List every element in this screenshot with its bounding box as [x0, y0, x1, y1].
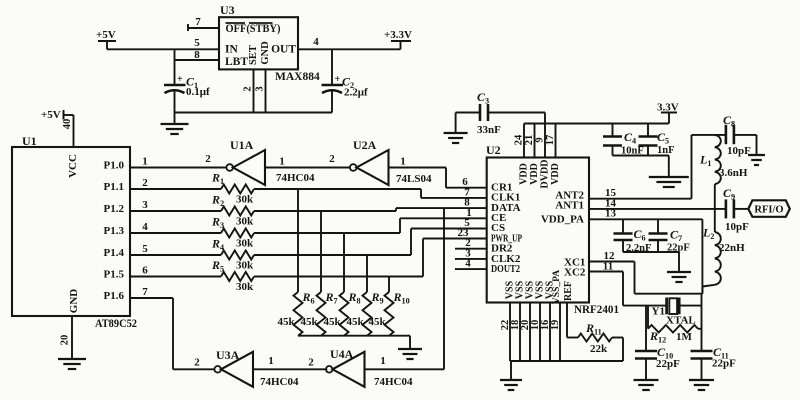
svg-text:19: 19 [550, 320, 561, 331]
svg-text:3.6nH: 3.6nH [719, 167, 748, 179]
svg-text:45k: 45k [369, 316, 387, 328]
svg-text:22pF: 22pF [656, 358, 680, 370]
svg-text:1: 1 [380, 355, 386, 367]
svg-text:+5V: +5V [41, 109, 61, 121]
svg-text:Y1: Y1 [652, 306, 665, 318]
svg-text:45k: 45k [324, 316, 342, 328]
svg-text:45k: 45k [347, 316, 365, 328]
svg-text:OUT: OUT [271, 44, 296, 56]
svg-text:10pF: 10pF [727, 145, 751, 157]
svg-text:U2A: U2A [353, 138, 377, 152]
svg-text:45k: 45k [301, 316, 319, 328]
svg-text:33nF: 33nF [477, 124, 501, 136]
svg-text:2: 2 [205, 153, 211, 165]
svg-text:GND: GND [260, 41, 271, 65]
svg-text:VDD: VDD [529, 163, 540, 185]
svg-text:1: 1 [400, 156, 406, 168]
svg-text:REF: REF [563, 281, 574, 301]
svg-text:30k: 30k [236, 194, 254, 206]
svg-text:8: 8 [194, 49, 200, 61]
svg-text:AT89C52: AT89C52 [95, 318, 137, 330]
svg-text:+: + [335, 74, 341, 85]
svg-text:P1.1: P1.1 [104, 181, 124, 193]
svg-text:+3.3V: +3.3V [384, 29, 412, 41]
svg-text:+5V: +5V [96, 29, 116, 41]
svg-text:9: 9 [535, 137, 546, 142]
svg-text:2: 2 [329, 153, 335, 165]
svg-text:74LS04: 74LS04 [396, 173, 432, 185]
svg-text:1M: 1M [676, 331, 693, 343]
svg-text:17: 17 [545, 135, 556, 146]
svg-text:DOUT2: DOUT2 [491, 263, 520, 275]
svg-text:21: 21 [524, 135, 535, 146]
svg-text:3: 3 [142, 199, 148, 211]
svg-text:U1: U1 [22, 134, 37, 148]
svg-text:P1.2: P1.2 [104, 203, 125, 215]
svg-text:3: 3 [255, 86, 266, 91]
svg-text:SET: SET [248, 45, 259, 65]
svg-text:U1A: U1A [230, 138, 254, 152]
svg-text:VDD: VDD [550, 163, 561, 185]
svg-text:13: 13 [605, 208, 617, 220]
svg-text:2: 2 [308, 357, 314, 369]
svg-text:VDD: VDD [519, 163, 530, 185]
svg-text:4: 4 [313, 36, 319, 48]
svg-text:10nF: 10nF [621, 146, 644, 157]
svg-text:NRF2401: NRF2401 [574, 304, 619, 316]
svg-text:2: 2 [142, 177, 148, 189]
svg-text:PWR_UP: PWR_UP [491, 232, 522, 244]
svg-text:VCC: VCC [67, 154, 79, 178]
svg-text:2: 2 [194, 357, 200, 369]
svg-text:10pF: 10pF [725, 221, 749, 233]
svg-text:U3: U3 [220, 3, 235, 17]
svg-text:2.2nF: 2.2nF [626, 243, 651, 254]
svg-text:1nF: 1nF [657, 145, 675, 156]
svg-text:4: 4 [142, 221, 148, 233]
svg-text:2: 2 [243, 86, 254, 91]
svg-text:1: 1 [142, 155, 148, 167]
svg-text:20: 20 [60, 335, 71, 346]
svg-text:DVDD: DVDD [540, 160, 551, 189]
svg-text:74HC04: 74HC04 [260, 376, 299, 388]
svg-text:11: 11 [603, 260, 613, 272]
svg-text:30k: 30k [236, 260, 254, 272]
svg-text:LBT: LBT [225, 56, 248, 68]
svg-text:XC2: XC2 [564, 267, 586, 279]
svg-text:P1.6: P1.6 [104, 290, 125, 302]
svg-text:1: 1 [279, 156, 285, 168]
svg-text:1: 1 [268, 355, 274, 367]
svg-text:5: 5 [194, 37, 200, 49]
svg-text:5: 5 [142, 243, 148, 255]
svg-text:2.2μf: 2.2μf [344, 87, 368, 99]
svg-text:U4A: U4A [330, 347, 354, 361]
svg-text:22pF: 22pF [667, 242, 690, 253]
svg-text:MAX884: MAX884 [275, 71, 320, 83]
svg-text:U2: U2 [486, 143, 501, 157]
svg-text:P1.5: P1.5 [104, 269, 125, 281]
svg-text:22nH: 22nH [719, 242, 745, 254]
svg-text:6: 6 [142, 264, 148, 276]
svg-text:7: 7 [195, 16, 201, 28]
svg-text:4: 4 [465, 258, 471, 270]
svg-text:22k: 22k [590, 343, 608, 355]
svg-text:VSS_PA: VSS_PA [552, 270, 562, 304]
svg-text:GND: GND [68, 289, 80, 314]
svg-text:0.1μf: 0.1μf [186, 86, 210, 98]
svg-text:VDD_PA: VDD_PA [541, 214, 584, 226]
svg-text:30k: 30k [236, 238, 254, 250]
svg-text:22pF: 22pF [712, 358, 736, 370]
svg-text:RFI/O: RFI/O [754, 205, 783, 216]
svg-text:30k: 30k [236, 281, 254, 293]
svg-text:ANT1: ANT1 [555, 200, 584, 212]
svg-text:24: 24 [514, 134, 525, 145]
svg-text:OFF(STBY): OFF(STBY) [226, 23, 281, 35]
svg-text:P1.4: P1.4 [104, 247, 125, 259]
svg-text:7: 7 [142, 286, 148, 298]
svg-text:30k: 30k [236, 216, 254, 228]
svg-text:P1.3: P1.3 [104, 225, 125, 237]
svg-text:IN: IN [225, 44, 238, 56]
svg-text:+: + [177, 74, 183, 85]
svg-text:6: 6 [462, 176, 468, 188]
svg-text:74HC04: 74HC04 [374, 376, 413, 388]
svg-text:U3A: U3A [216, 348, 240, 362]
svg-text:40: 40 [62, 119, 73, 130]
svg-text:45k: 45k [278, 316, 296, 328]
svg-text:74HC04: 74HC04 [276, 172, 315, 184]
svg-text:P1.0: P1.0 [104, 160, 125, 172]
